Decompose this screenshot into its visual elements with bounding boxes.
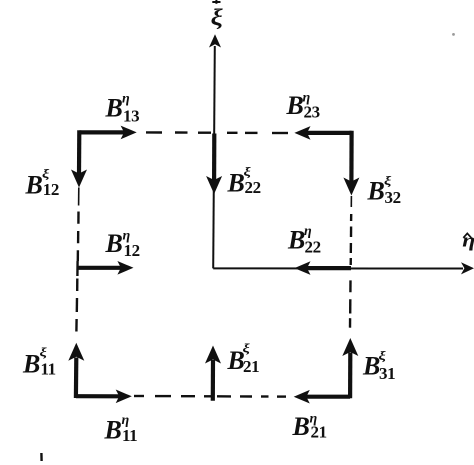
- svg-text:31: 31: [379, 364, 395, 383]
- svg-text:B: B: [227, 169, 245, 198]
- arrow B_eta_11 (bottom-left, rightward): [76, 390, 132, 404]
- label B_xi_11: [22, 346, 56, 378]
- label eta-hat (axis): [462, 230, 474, 251]
- svg-text:B: B: [105, 94, 123, 123]
- dashed left edge: [76, 188, 78, 332]
- arrow B_xi_32 (right-top, downward): [343, 131, 359, 196]
- svg-text:11: 11: [122, 426, 137, 445]
- svg-text:22: 22: [245, 178, 261, 197]
- svg-text:13: 13: [123, 107, 139, 126]
- svg-text:η: η: [122, 92, 130, 107]
- dashed bottom edge: [134, 395, 286, 398]
- svg-text:ξ: ξ: [379, 350, 387, 364]
- eta axis arrowhead: [461, 262, 474, 274]
- arrow B_eta_13 (top-left, rightward): [79, 126, 136, 140]
- arrow B_xi_21 (bottom-middle, upward): [205, 346, 221, 401]
- svg-text:B: B: [286, 91, 304, 120]
- top edge cut mark: [212, 0, 220, 4]
- label B_xi_21: [227, 342, 260, 376]
- svg-text:12: 12: [124, 241, 140, 260]
- label B_eta_22: [287, 224, 321, 256]
- label B_eta_12: [105, 229, 140, 261]
- svg-text:ξ: ξ: [384, 174, 392, 188]
- svg-text:23: 23: [304, 103, 320, 122]
- eta axis line: [213, 267, 463, 269]
- arrow B_eta_23 (top-right, leftward): [294, 126, 351, 140]
- svg-text:B: B: [292, 412, 310, 441]
- speck top-right: [452, 33, 455, 36]
- svg-text:ξ: ξ: [243, 342, 251, 356]
- svg-text:32: 32: [385, 188, 401, 207]
- svg-text:B: B: [287, 226, 305, 255]
- dashed top edge: [146, 131, 288, 134]
- svg-text:B: B: [367, 177, 385, 206]
- svg-text:B: B: [22, 350, 40, 379]
- svg-text:B: B: [105, 229, 123, 258]
- arrow B_xi_11 (left-bottom, upward): [68, 343, 84, 398]
- label B_eta_21: [292, 412, 327, 442]
- svg-text:21: 21: [311, 423, 327, 442]
- svg-text:η: η: [462, 230, 474, 251]
- svg-text:22: 22: [305, 238, 321, 257]
- label B_eta_13: [105, 92, 140, 126]
- label B_xi_31: [362, 350, 395, 383]
- arrow B_eta_22 (on eta axis, leftward): [294, 261, 351, 275]
- label B_eta_23: [286, 90, 320, 121]
- arrow B_eta_21 (bottom-right, leftward): [294, 390, 350, 404]
- svg-text:ξ: ξ: [40, 346, 48, 360]
- xi axis arrowhead: [209, 34, 221, 47]
- label B_xi_12: [25, 168, 60, 200]
- svg-text:21: 21: [243, 357, 259, 376]
- arrow B_eta_12 (middle-left, rightward): [77, 261, 133, 275]
- arrow B_xi_22 (on xi axis, downward): [206, 134, 222, 195]
- svg-text:12: 12: [43, 180, 59, 199]
- dashed right edge: [350, 196, 351, 328]
- label B_xi_22: [227, 166, 261, 198]
- svg-text:B: B: [104, 416, 122, 445]
- xi axis line: [213, 46, 215, 268]
- svg-text:ξ: ξ: [211, 4, 224, 30]
- bottom-left stray tick: [40, 453, 43, 461]
- label B_eta_11: [104, 413, 138, 445]
- label B_xi_32: [367, 174, 401, 207]
- arrow B_xi_31 (right-bottom, upward): [342, 338, 358, 398]
- svg-text:11: 11: [41, 360, 56, 379]
- svg-text:B: B: [25, 171, 43, 200]
- arrow B_xi_12 (left-top, downward): [71, 130, 87, 187]
